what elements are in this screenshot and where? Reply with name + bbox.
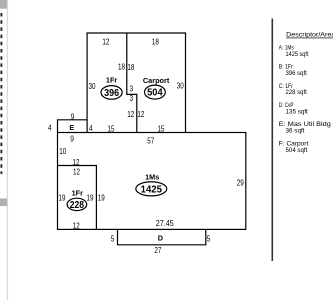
svg-text:12: 12 [137, 109, 144, 119]
svg-text:9: 9 [71, 111, 75, 121]
window edge light vertical line [7, 0, 8, 300]
svg-text:30: 30 [177, 81, 184, 91]
wire: area C walls (1Fr 228) [58, 166, 97, 230]
svg-text:5: 5 [207, 233, 211, 243]
svg-text:15: 15 [108, 123, 115, 133]
svg-text:27.45: 27.45 [156, 218, 174, 228]
svg-text:1Fr: 1Fr [106, 75, 118, 84]
wire: area E outline (Mas Util Bldg) [58, 120, 88, 133]
ellipse area A [136, 182, 167, 196]
svg-text:15: 15 [158, 124, 165, 134]
svg-text:1425: 1425 [141, 184, 163, 195]
svg-text:1Ms: 1Ms [145, 173, 159, 182]
svg-text:504: 504 [147, 88, 163, 99]
svg-text:504 sqft: 504 sqft [286, 147, 308, 154]
svg-text:135 sqft: 135 sqft [286, 108, 308, 115]
svg-text:19: 19 [87, 192, 94, 202]
svg-text:228 sqft: 228 sqft [286, 89, 307, 96]
svg-text:12: 12 [127, 109, 134, 119]
svg-text:228: 228 [70, 200, 85, 211]
svg-text:36 sqft: 36 sqft [286, 128, 305, 135]
svg-text:4: 4 [48, 122, 52, 132]
scrollbar fragment top-left [0, 0, 7, 9]
svg-text:18: 18 [118, 61, 125, 71]
svg-text:3: 3 [130, 93, 134, 103]
scrollbar fragment mid-left [0, 199, 7, 207]
svg-text:19: 19 [59, 192, 66, 202]
svg-text:18: 18 [152, 36, 159, 46]
svg-text:1Fr: 1Fr [72, 188, 84, 197]
svg-text:10: 10 [59, 146, 66, 156]
svg-text:18: 18 [127, 62, 134, 72]
svg-text:4: 4 [89, 123, 93, 133]
dashed page-edge line [0, 13, 2, 174]
svg-text:1425 sqft: 1425 sqft [286, 51, 309, 58]
wire: top section outline (areas B and F) [87, 33, 185, 133]
ellipse area F [145, 85, 166, 99]
svg-text:396 sqft: 396 sqft [286, 70, 307, 77]
svg-text:27: 27 [154, 245, 161, 255]
svg-text:396: 396 [104, 88, 119, 99]
svg-text:12: 12 [73, 220, 80, 230]
svg-text:9: 9 [70, 134, 74, 144]
svg-text:30: 30 [89, 81, 96, 91]
ellipse area C [67, 198, 87, 210]
svg-text:19: 19 [98, 192, 105, 202]
svg-text:29: 29 [237, 178, 244, 188]
svg-text:D: D [158, 234, 163, 243]
ellipse area B [101, 86, 122, 100]
legend separator line [272, 19, 274, 262]
svg-text:12: 12 [102, 36, 109, 46]
wire: area D outline (CvP) [118, 229, 206, 244]
wire: main area A outline (1Ms) [58, 133, 246, 230]
svg-text:12: 12 [73, 157, 80, 167]
svg-text:Carport: Carport [143, 76, 170, 85]
svg-text:E: E [69, 123, 74, 132]
wire: divider wall between B and F with 3ft jog [127, 33, 137, 133]
svg-text:12: 12 [73, 167, 80, 177]
svg-text:57: 57 [147, 136, 154, 146]
svg-text:Descriptor/Area: Descriptor/Area [286, 32, 333, 39]
svg-text:5: 5 [111, 233, 115, 243]
